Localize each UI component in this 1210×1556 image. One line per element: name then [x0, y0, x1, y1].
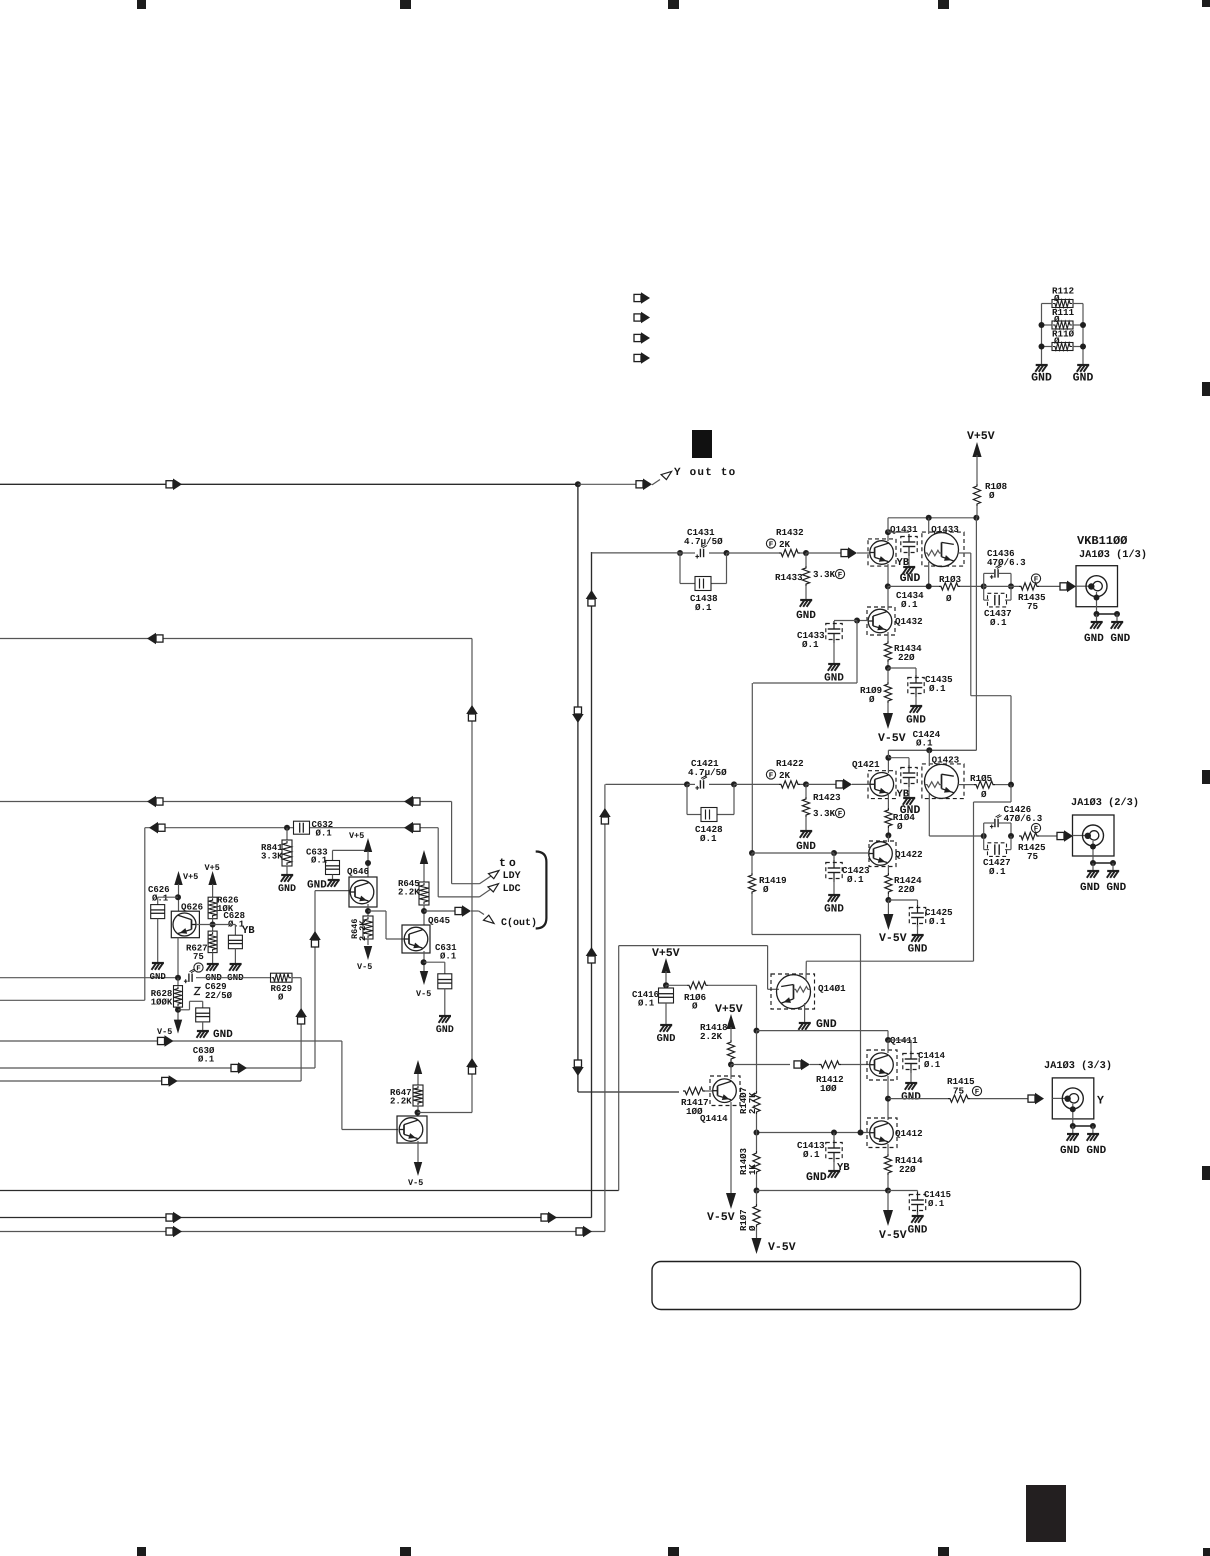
resistor R1415: [948, 1078, 975, 1084]
capacitor C1428: [686, 784, 688, 814]
black page tab bottom right: [1026, 1485, 1066, 1542]
ground connector3 a: [1067, 1133, 1079, 1135]
node Q1412 base rail b: [831, 1130, 837, 1136]
node R1432 right: [800, 552, 806, 554]
wire stage2 collector rail: [888, 749, 976, 751]
capacitor C1438: [679, 553, 681, 584]
arrow on C(out) wire: [455, 907, 462, 914]
resistor R107: [740, 1210, 746, 1230]
wire Q646 emitter to Q645 base: [368, 910, 386, 912]
resistor R1432: [777, 529, 803, 535]
ground connector1 a: [1091, 621, 1103, 623]
transistor Q1412: [895, 1130, 922, 1138]
registration mark top 2: [400, 0, 411, 9]
arrow right on y1232 b: [576, 1228, 583, 1235]
resistor R626: [208, 897, 217, 919]
wire R1403 node to R1414 node: [757, 1190, 889, 1192]
ground C626: [152, 962, 164, 964]
arrow into JA103 2/3: [1057, 832, 1064, 839]
power V-5 R628: [174, 1020, 182, 1034]
wire line B V+5V down to stage2: [975, 518, 977, 751]
arrow into JA103 3/3: [1028, 1095, 1035, 1102]
wire C1431 to R1432: [727, 552, 780, 554]
registration mark right 2: [1202, 770, 1210, 784]
node C1426 right: [1008, 833, 1014, 839]
node Q645 collector: [421, 908, 427, 914]
ground R841: [281, 874, 293, 876]
capacitor C626: [148, 886, 169, 892]
node stage3 output: [885, 1096, 891, 1102]
arrow right on y1218 a: [166, 1214, 173, 1221]
label GND GND connector3: [1060, 1146, 1105, 1153]
capacitor C1424 (YB): [913, 731, 940, 737]
ground R1433: [800, 599, 812, 601]
capacitor C1421: [691, 760, 718, 766]
arrow into R1412: [794, 1061, 801, 1068]
registration mark top 3: [668, 0, 679, 9]
capacitor C1434 (YB): [888, 531, 909, 533]
wire Q1423 emitter to output rail: [928, 794, 930, 836]
node Q1432 base: [854, 618, 860, 624]
arrow left on y801 a: [156, 798, 163, 805]
power V-5V Q1414: [726, 1193, 736, 1209]
wire Q1412 base rail: [757, 1132, 870, 1134]
node R646 top: [365, 908, 371, 914]
signal arrow 4: [634, 354, 641, 361]
wire y801 from left: [0, 801, 452, 803]
transistor Q1414: [700, 1115, 727, 1123]
arrow LDY: [480, 876, 492, 884]
wire R106 to Q1411 collector rail: [708, 984, 757, 986]
power V-5 R646: [364, 946, 372, 960]
ground connector2 b: [1107, 870, 1119, 872]
wire Q626 emitter: [177, 938, 179, 978]
power V+5 Q646: [349, 832, 364, 838]
wire x618 vertical: [618, 946, 620, 1191]
capacitor C1416: [632, 991, 658, 997]
wire y1000 from left: [0, 999, 145, 1001]
transistor Q646: [347, 868, 368, 876]
ground R627: [207, 963, 219, 965]
registration mark top 4: [938, 0, 949, 9]
power V-5V stage3: [883, 1210, 893, 1226]
transistor Q1411: [890, 1037, 917, 1045]
ground left of network: [1036, 364, 1048, 366]
wire y1068 from left: [0, 1067, 315, 1069]
node R1422 right: [800, 783, 806, 785]
capacitor C1413: [833, 1133, 835, 1141]
registration mark bottom 4: [938, 1547, 949, 1556]
arrow down on Y bus lower: [574, 1060, 581, 1067]
ground C633: [328, 879, 340, 881]
wire Y to out arrow: [578, 483, 637, 485]
wire Q647 collector to x472 bus: [418, 1112, 473, 1114]
wire connector3 ground leads: [1072, 1104, 1074, 1126]
wire collector rail stage3: [757, 1030, 889, 1032]
transistor Q645: [428, 917, 449, 925]
capacitor C628: [224, 912, 245, 918]
ground C1433: [828, 663, 840, 665]
arrow up on x315: [311, 940, 318, 947]
arrow C(out): [479, 911, 484, 915]
junction dots resistor network: [1039, 322, 1045, 328]
arrow left on y801 b: [413, 798, 420, 805]
connector VKB1100 JA103 (1/3): [1077, 536, 1127, 544]
node C1431 right: [724, 550, 730, 556]
arrow into Q1421: [836, 781, 843, 788]
arrow LDC: [480, 889, 491, 897]
transistor Q1431: [890, 526, 917, 534]
wire stage1 collector rail: [887, 518, 889, 532]
wire stage3 output: [888, 1098, 948, 1100]
wire stage2 base node to Q1401 collector: [1010, 785, 1012, 802]
wire y1041 from left: [0, 1040, 342, 1042]
wire y1068 corner up to Q646 base: [314, 891, 316, 1068]
arrow Y out: [636, 481, 643, 488]
wire Q626 base: [196, 924, 213, 926]
node stage1 input left: [677, 550, 683, 556]
wire Q1401 collector: [805, 961, 807, 980]
label C(out): [501, 918, 535, 927]
label Y connector3: [1097, 1096, 1104, 1104]
ground Q1401 emitter: [804, 1003, 806, 1022]
resistor R105: [971, 775, 992, 781]
wire y978 from left: [0, 977, 178, 979]
registration mark bottom right corner: [1203, 1548, 1210, 1556]
node Q626 collector top: [175, 894, 181, 900]
label C1434: [896, 592, 923, 598]
node Q626 emitter on y978: [175, 975, 181, 981]
resistor R629: [271, 973, 293, 982]
wire Q1414 collector to V-5: [730, 1102, 732, 1193]
wire connector1 ground leads: [1096, 592, 1098, 614]
wire y828 from corner: [145, 827, 438, 829]
node Q1412 base rail a: [754, 1130, 760, 1136]
arrow down on Y bus upper: [574, 707, 581, 714]
resistor R647: [417, 1074, 419, 1085]
power V-5 Q645: [423, 969, 425, 973]
wire Y in from left: [0, 483, 578, 485]
signal arrow 2: [634, 314, 641, 321]
wire y828 corner to LDC: [437, 828, 439, 897]
arrow right on y1041: [158, 1037, 165, 1044]
capacitor C629 series: [188, 974, 190, 982]
arrow left on y828 b: [413, 824, 420, 831]
resistor R1424: [885, 873, 892, 894]
node C1436 right: [1008, 583, 1014, 589]
resistor R1423: [805, 784, 807, 797]
resistor R1403: [740, 1148, 746, 1174]
node C1426 left: [981, 833, 987, 839]
wire Q646 emitter: [367, 904, 369, 916]
arrow left on y638: [156, 635, 163, 642]
resistor R627: [208, 931, 217, 953]
arrow left on y828 a: [158, 824, 165, 831]
wire C1436 rail: [984, 585, 1019, 587]
arrow up on x591 lower: [588, 956, 595, 963]
resistor R1425: [1031, 823, 1040, 832]
arrow up on x301: [298, 1017, 305, 1024]
node mid rail: [754, 1028, 760, 1034]
registration mark right 1: [1202, 382, 1210, 396]
node R105 right: [1008, 782, 1014, 788]
ground R1423: [800, 830, 812, 832]
capacitor C1414: [888, 1039, 911, 1041]
wire bus y638 from left: [0, 638, 472, 640]
circle F R627: [194, 963, 203, 972]
arrow right on y1081: [162, 1077, 169, 1084]
bracket right: [536, 852, 547, 929]
wire Q1401 base feed: [619, 945, 768, 947]
power V+5V stage1: [967, 431, 995, 439]
registration mark top right corner: [1202, 0, 1210, 7]
capacitor C1431: [687, 529, 714, 535]
signal arrow 3: [634, 334, 641, 341]
capacitor C1435: [888, 667, 916, 669]
arrow up above R647: [414, 1060, 422, 1074]
wire x145 vertical: [144, 828, 146, 1001]
node C1416 top: [663, 982, 669, 988]
ground C1424: [908, 787, 910, 797]
label LDY: [504, 871, 521, 878]
wire y1232 from left: [0, 1231, 605, 1233]
wire Q1433 base to line A: [958, 552, 971, 554]
resistor R111: [1053, 309, 1074, 315]
ground C630: [197, 1030, 209, 1032]
capacitor C1425: [888, 899, 917, 901]
wire resistor network left rail: [1042, 303, 1053, 305]
transistor Q626: [181, 903, 202, 911]
power V+5 Q626: [183, 873, 198, 879]
transistor Q1423 (with base resistor): [932, 756, 959, 764]
resistor R841: [286, 828, 288, 840]
arrow into Q1431: [841, 549, 848, 556]
wire bus x472 vertical: [471, 639, 473, 1113]
node Q647 collector: [415, 1110, 421, 1116]
wire to arrow stage3: [731, 1064, 790, 1066]
node Q1431 collector: [885, 529, 891, 535]
node C1421 right: [731, 781, 737, 787]
wire connector2 ground leads: [1092, 841, 1094, 863]
node R1424 bottom: [885, 897, 891, 903]
capacitor C630: [178, 1009, 190, 1011]
arrow on Y wire: [166, 481, 173, 488]
transistor Q647: [397, 1116, 427, 1143]
power V-5V R107: [752, 1238, 762, 1254]
wire stage2 input: [606, 783, 688, 785]
wire y801 corner to LDY: [451, 802, 453, 884]
transistor Q1422: [895, 851, 922, 859]
arrow up on x472 upper: [468, 714, 475, 721]
ground right of network: [1077, 364, 1089, 366]
node stage2 input left: [684, 781, 690, 787]
resistor R1412: [810, 1064, 819, 1066]
wire y1041 corner to Q647 base: [341, 1041, 343, 1130]
wire Q1422 base: [834, 852, 869, 854]
node Q1423 collector on rail: [926, 747, 932, 753]
wire y978 to R629: [196, 977, 271, 979]
registration mark bottom 1: [137, 1547, 146, 1556]
resistor R628: [177, 978, 179, 986]
capacitor C1433: [834, 620, 857, 622]
wire Q645 emitter: [423, 951, 425, 969]
capacitor C1423: [833, 853, 835, 860]
wire Y out diagonal: [652, 480, 660, 485]
node R108 bottom on rail: [973, 515, 979, 521]
node R1414 bottom: [885, 1188, 891, 1194]
resistor R106: [666, 984, 687, 986]
wire y1081 from left: [0, 1080, 301, 1082]
wire R629 to corner down: [292, 977, 301, 979]
ground C1425: [912, 934, 924, 936]
node Q1433 collector on rail: [926, 515, 932, 521]
arrow right on y1218 b: [541, 1214, 548, 1221]
power V+5V R1418: [715, 1004, 743, 1012]
ground C1423: [828, 894, 840, 896]
arrow up on x605: [601, 817, 608, 824]
arrow into JA103 1/3: [1060, 583, 1067, 590]
node Y junction: [575, 481, 581, 487]
arrow up on x591 upper: [588, 599, 595, 606]
power V-5 Q647: [417, 1159, 419, 1164]
wire resistor network right rail: [1073, 303, 1083, 305]
capacitor C1415: [888, 1190, 918, 1192]
transistor Q1401 (with base resistor): [818, 985, 845, 993]
wire Q1423 collector: [928, 750, 930, 766]
ground C1415: [912, 1215, 924, 1217]
node Q646 collector: [365, 860, 371, 866]
capacitor C1437: [983, 586, 985, 600]
info box rounded rect: [652, 1262, 1081, 1310]
capacitor C633: [306, 848, 327, 854]
wire Q1431 emitter: [887, 564, 889, 586]
resistor R109: [887, 668, 889, 682]
resistor R1435: [1031, 574, 1040, 583]
wire x605 vertical (C bus): [604, 784, 606, 1231]
label LDC: [504, 884, 521, 891]
resistor R645: [423, 864, 425, 882]
wire Q1412 emitter: [887, 1144, 889, 1154]
node R628 bottom: [177, 1007, 179, 1021]
node Q1433 emitter join: [926, 583, 932, 589]
transistor Q1433 (with base resistor): [932, 526, 959, 534]
wire Q1432 base: [857, 620, 869, 622]
wire x591 vertical (Y2 bus): [591, 552, 593, 1218]
wire Q1432 base feed from left: [753, 682, 857, 684]
ground C1435: [910, 705, 922, 707]
node Q645 emitter: [421, 959, 427, 965]
arrow right on y1068: [231, 1064, 238, 1071]
wire Q1421 collector: [887, 758, 889, 773]
wire Q1433 collector: [928, 518, 930, 534]
resistor R1422: [777, 760, 803, 766]
ground C1413: [828, 1170, 840, 1172]
arrow Y out diagonal head: [661, 471, 672, 479]
black ref mark above Y out: [692, 430, 712, 458]
resistor R104: [885, 808, 892, 828]
arrow up on x472 lower: [468, 1067, 475, 1074]
wire Q1414 emitter to R1418 node: [730, 1065, 732, 1080]
node R1418 bottom: [728, 1062, 734, 1068]
wire Q645 collector to C(out): [424, 910, 455, 912]
resistor R103: [940, 576, 961, 582]
resistor R1418: [701, 1024, 727, 1030]
node Q626 base junction: [210, 922, 216, 928]
wire base feed vertical Q1432 to R1419 node: [751, 683, 753, 853]
registration mark bottom 3: [668, 1547, 679, 1556]
wire Q1433 emitter: [928, 562, 930, 586]
power V+5V C1416: [652, 948, 680, 956]
ground connector3 b: [1087, 1133, 1099, 1135]
transistor Q1421: [852, 761, 879, 769]
resistor R1434: [887, 632, 889, 641]
wire Q1422 emitter: [887, 865, 889, 873]
wire Q1431 collector: [887, 532, 889, 541]
connector JA103 (2/3): [1072, 798, 1138, 808]
capacitor C1426: [1004, 806, 1031, 812]
wire emitter rail stage1: [888, 585, 939, 587]
ground connector1 b: [1111, 621, 1123, 623]
node Q1421 collector: [885, 755, 891, 761]
label GND GND connector1: [1084, 634, 1129, 641]
label Y out to: [674, 468, 735, 475]
wire Q1411 emitter: [887, 1076, 889, 1120]
resistor R646: [363, 916, 373, 939]
wire C1421 to R1422: [734, 783, 779, 785]
connector JA103 (3/3): [1045, 1061, 1111, 1071]
wire line A down to stage2 base node: [970, 553, 972, 696]
arrow up above R645: [420, 850, 428, 864]
arrow right on y1232 a: [166, 1228, 173, 1235]
ground C1414: [905, 1082, 917, 1084]
wire node to arrow stage1: [806, 552, 841, 554]
capacitor C632 series on y828: [284, 825, 290, 831]
node R1403 bottom: [754, 1188, 760, 1194]
resistor R1407: [740, 1088, 746, 1114]
ground C1434: [908, 556, 910, 566]
resistor R110: [1053, 330, 1074, 336]
resistor R108: [973, 484, 980, 506]
node Q1422 base: [831, 850, 837, 856]
resistor R1433: [805, 553, 807, 566]
resistor R1417: [682, 1099, 708, 1105]
resistor R112: [1053, 287, 1074, 293]
transistor Q1432: [895, 618, 922, 626]
node stage1 emitter: [885, 583, 891, 589]
resistor R1414: [884, 1154, 891, 1175]
registration mark top 1: [137, 0, 146, 9]
wire Q647 emitter: [417, 1141, 419, 1159]
node R1419 top: [749, 850, 755, 856]
node Q1412 base rail c: [858, 1130, 864, 1136]
ground C1416: [660, 1024, 672, 1026]
ground C628: [230, 963, 242, 965]
capacitor C1427: [983, 836, 985, 850]
signal arrow 1: [634, 294, 641, 301]
node C1436 left: [981, 583, 987, 589]
wire y1218 from left: [0, 1217, 592, 1219]
label GND GND connector2: [1080, 883, 1125, 890]
wire y1190 from left: [0, 1190, 619, 1192]
wire R1419 to stage3 bias: [752, 934, 861, 936]
power V+5 R626: [205, 864, 220, 870]
capacitor C1436: [987, 550, 1014, 556]
node Q1411 collector branch: [885, 1037, 891, 1043]
capacitor C631: [435, 944, 456, 950]
node R1434 bottom: [885, 665, 891, 671]
registration mark right 3: [1202, 1166, 1210, 1180]
ground connector2 a: [1087, 870, 1099, 872]
